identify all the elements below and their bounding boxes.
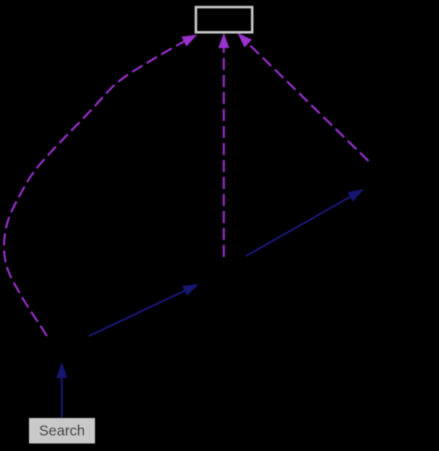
edge: dashed usage vertical from middle node to top box [223, 48, 225, 257]
arrowhead of Search inheritance edge [56, 362, 67, 378]
node: top class box (empty, black-on-transparent label) [196, 7, 252, 32]
edge: solid inheritance from Search node to bottom-left node [61, 378, 63, 417]
edge: solid inheritance from middle node to right node [246, 197, 350, 256]
edge: dashed usage arc from bottom-left node to top box (left curve) [4, 42, 184, 337]
edge: solid inheritance from bottom-left node to middle node [89, 291, 185, 336]
node Search (root, filled grey) [29, 418, 95, 444]
edge: dashed usage diagonal from right node to top box [248, 44, 368, 162]
arrowhead of inheritance edge 2 [347, 189, 364, 202]
arrowhead of inheritance edge 1 [182, 284, 199, 296]
arrowhead of left arc [181, 35, 197, 47]
arrowhead of vertical dashed edge [218, 33, 229, 48]
svg-text:Search: Search [39, 424, 85, 440]
arrowhead of right dashed edge [238, 33, 253, 47]
